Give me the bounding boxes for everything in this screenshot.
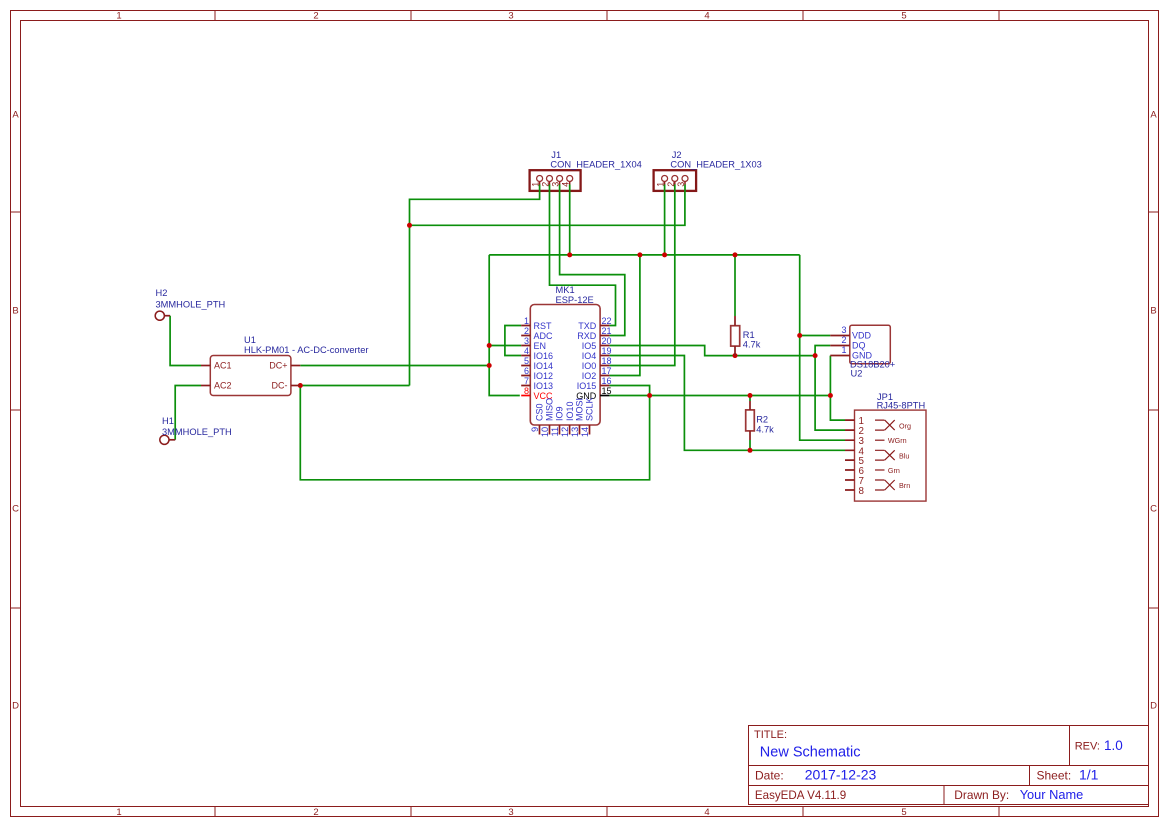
svg-text:2: 2 <box>841 335 846 345</box>
frame column numbers top <box>116 11 906 22</box>
svg-text:19: 19 <box>602 346 612 356</box>
svg-text:CS0: CS0 <box>535 403 545 421</box>
svg-text:DQ: DQ <box>852 341 866 351</box>
module MK1 ESP-12E <box>521 285 611 437</box>
JP1 pair symbol Brn <box>875 480 895 490</box>
wire U1 DC- to GND vertical <box>300 385 409 387</box>
U2 pin names <box>852 331 873 361</box>
wire J1 pin1 to GND vertical <box>410 185 540 386</box>
frame top ticks <box>215 11 999 21</box>
svg-text:B: B <box>12 306 18 317</box>
wire ESP GND horizontal <box>609 395 830 397</box>
junction R2 bottom on JP1 pin4 net <box>748 448 753 453</box>
title block row line 1 <box>749 765 1149 767</box>
svg-text:Org: Org <box>899 421 911 430</box>
resistor R1 <box>731 316 761 356</box>
title block outline <box>749 726 1149 805</box>
svg-text:A: A <box>12 110 19 121</box>
junction U1 DC- <box>298 383 303 388</box>
junction J1 pin4 on 3V3 rail <box>567 252 572 257</box>
svg-text:1: 1 <box>841 345 846 355</box>
J1 pin wires inside box <box>540 185 570 193</box>
MK1 left pin names <box>534 321 554 391</box>
svg-text:3: 3 <box>676 182 686 187</box>
wire R2 bottom to JP1 pin4 net <box>749 440 751 450</box>
JP1 pair symbol Blu <box>875 450 895 460</box>
svg-text:8: 8 <box>859 486 865 497</box>
MK1 bottom pin numbers rotated <box>530 427 590 437</box>
resistor R2 <box>746 401 774 440</box>
wire R1 top to 3V3 rail <box>734 255 736 316</box>
svg-text:R2: R2 <box>756 415 768 425</box>
mounting hole H1 <box>160 416 232 444</box>
svg-text:8: 8 <box>524 386 529 396</box>
svg-text:2: 2 <box>524 326 529 336</box>
junction R1 bottom on DQ net <box>733 353 738 358</box>
svg-text:2: 2 <box>313 807 318 818</box>
frame column numbers bottom <box>116 807 906 818</box>
svg-text:9: 9 <box>530 427 540 432</box>
wire 3V3 rail horizontal <box>489 254 800 256</box>
junction GND top at J1 pin1 <box>407 223 412 228</box>
J1 pin stubs <box>540 182 570 185</box>
svg-text:R1: R1 <box>743 330 755 340</box>
wire ESP IO2 to 3V3 rail <box>609 255 640 376</box>
svg-text:18: 18 <box>602 356 612 366</box>
title block row line 2 <box>749 785 1149 787</box>
svg-text:H2: H2 <box>156 288 168 298</box>
svg-text:DC-: DC- <box>272 381 288 391</box>
svg-text:22: 22 <box>602 316 612 326</box>
svg-text:C: C <box>12 504 19 515</box>
junction IO15 on GND wire <box>647 393 652 398</box>
wire J1 pin3 to ESP RXD <box>560 185 625 336</box>
wire H1 to U1 AC2 <box>175 386 201 440</box>
svg-text:C: C <box>1150 504 1157 515</box>
svg-text:REV:: REV: <box>1075 741 1100 753</box>
JP1 pin numbers <box>859 416 865 497</box>
svg-text:MK1: MK1 <box>556 285 575 295</box>
title block DrawnBy divider <box>943 786 945 805</box>
converter U1 HLK-PM01 <box>201 335 369 396</box>
MK1 right pin names <box>577 321 597 391</box>
header J1 CON_HEADER_1X04 <box>530 150 642 192</box>
svg-text:U1: U1 <box>244 335 256 345</box>
header J2 CON_HEADER_1X03 <box>654 150 762 192</box>
svg-text:IO5: IO5 <box>582 341 597 351</box>
svg-text:3MMHOLE_PTH: 3MMHOLE_PTH <box>156 300 226 310</box>
sensor U2 DS18B20 <box>830 325 895 379</box>
junction R1 top on 3V3 rail <box>733 252 738 257</box>
svg-text:RST: RST <box>534 321 553 331</box>
U1 pin names <box>214 361 288 391</box>
title block REV divider <box>1069 726 1071 766</box>
svg-text:Grn: Grn <box>888 466 900 475</box>
svg-text:3: 3 <box>524 336 529 346</box>
svg-text:IO14: IO14 <box>534 361 554 371</box>
svg-text:5: 5 <box>524 356 529 366</box>
svg-text:1/1: 1/1 <box>1079 767 1099 783</box>
svg-text:EN: EN <box>534 341 547 351</box>
U1 pin DC- stub <box>291 385 300 387</box>
svg-text:D: D <box>1150 701 1157 712</box>
svg-text:11: 11 <box>550 427 560 437</box>
svg-text:DC+: DC+ <box>269 361 287 371</box>
svg-text:1: 1 <box>116 807 121 818</box>
svg-text:1.0: 1.0 <box>1104 738 1123 753</box>
wire GND return path <box>300 386 649 480</box>
JP1 pin stubs 1-8 <box>845 420 855 490</box>
J1 pin numbers rotated <box>531 182 571 187</box>
U1 pin AC2 stub <box>201 385 210 387</box>
svg-text:2: 2 <box>541 182 551 187</box>
wire J1 pin2 to ESP TXD <box>550 185 616 326</box>
svg-text:A: A <box>1150 110 1157 121</box>
wire ESP RST to IO16 bracket <box>505 326 521 356</box>
wire GND horizontal to J2 pin3 <box>410 185 685 226</box>
connector JP1 RJ45-8PTH <box>845 392 926 501</box>
svg-text:14: 14 <box>580 427 590 437</box>
svg-text:H1: H1 <box>162 416 174 426</box>
R2 top stub <box>749 401 751 410</box>
svg-text:Blu: Blu <box>899 451 909 460</box>
JP1 single line Grn <box>875 469 885 471</box>
junction DC+ on 3V3 leg <box>487 363 492 368</box>
svg-text:TXD: TXD <box>578 321 597 331</box>
frame bottom ticks <box>215 807 999 817</box>
svg-text:15: 15 <box>602 386 612 396</box>
R2 bottom stub <box>749 431 751 440</box>
svg-text:Sheet:: Sheet: <box>1037 769 1072 783</box>
U1 pin AC1 stub <box>201 365 210 367</box>
svg-text:1: 1 <box>116 11 121 22</box>
title block Sheet divider <box>1029 766 1031 786</box>
svg-text:SCLK: SCLK <box>585 397 595 421</box>
frame row letters right <box>1150 110 1157 712</box>
svg-text:CON_HEADER_1X04: CON_HEADER_1X04 <box>550 160 641 170</box>
MK1 right pin numbers <box>602 316 612 386</box>
wire 3V3 left leg to ESP VCC <box>489 255 520 396</box>
U2 pin numbers <box>841 325 846 355</box>
mounting hole H2 <box>155 288 225 320</box>
svg-text:New Schematic: New Schematic <box>760 745 861 761</box>
wire ESP IO4 to JP1 pin4 <box>609 356 845 451</box>
junction J2 pin1 on 3V3 rail <box>662 252 667 257</box>
svg-text:6: 6 <box>524 366 529 376</box>
J2 pin numbers rotated <box>656 182 686 187</box>
svg-text:AC2: AC2 <box>214 381 232 391</box>
svg-text:4: 4 <box>704 11 709 22</box>
svg-text:3MMHOLE_PTH: 3MMHOLE_PTH <box>162 427 232 437</box>
svg-text:VDD: VDD <box>852 331 872 341</box>
wire U1 DC+ to 3V3 leg <box>300 365 489 367</box>
svg-text:IO12: IO12 <box>534 371 554 381</box>
svg-text:17: 17 <box>602 366 612 376</box>
svg-text:1: 1 <box>531 182 541 187</box>
R1 top stub <box>734 316 736 326</box>
J2 pin wires inside box <box>665 185 685 193</box>
svg-text:Your Name: Your Name <box>1020 787 1084 802</box>
wire 3V3 right leg to JP1 pin3 <box>800 255 845 440</box>
svg-text:EasyEDA V4.11.9: EasyEDA V4.11.9 <box>755 789 846 802</box>
frame right ticks <box>1149 212 1159 608</box>
MK1 left pin numbers <box>524 316 529 386</box>
svg-text:20: 20 <box>602 336 612 346</box>
svg-text:Drawn By:: Drawn By: <box>954 788 1009 802</box>
wire U2 GND to JP1 pin1 <box>830 356 845 421</box>
svg-text:HLK-PM01 - AC-DC-converter: HLK-PM01 - AC-DC-converter <box>244 345 369 355</box>
svg-text:ADC: ADC <box>534 331 554 341</box>
svg-text:IO16: IO16 <box>534 351 554 361</box>
svg-text:IO0: IO0 <box>582 361 597 371</box>
svg-text:ESP-12E: ESP-12E <box>556 295 594 305</box>
svg-text:IO10: IO10 <box>565 401 575 421</box>
svg-text:3: 3 <box>551 182 561 187</box>
wire J2 pin2 to ESP IO0 <box>609 185 674 366</box>
J1 pin circles <box>537 176 573 182</box>
JP1 single line WGrn <box>875 439 885 441</box>
svg-text:Date:: Date: <box>755 769 784 783</box>
wire VDD branch to U2 pin3 <box>800 335 831 337</box>
svg-text:3: 3 <box>508 807 513 818</box>
svg-text:Brn: Brn <box>899 481 910 490</box>
MK1 bottom pin names rotated <box>535 397 595 421</box>
wire J2 pin1 to 3V3 rail <box>664 185 666 255</box>
frame left ticks <box>11 212 21 608</box>
svg-text:J2: J2 <box>672 150 682 160</box>
svg-text:J1: J1 <box>551 150 561 160</box>
svg-text:21: 21 <box>602 326 612 336</box>
J2 pin stubs <box>665 182 685 185</box>
svg-text:2: 2 <box>313 11 318 22</box>
wire U2 DQ to JP1 pin2 <box>815 346 845 431</box>
svg-text:2: 2 <box>666 182 676 187</box>
svg-text:AC1: AC1 <box>214 361 232 371</box>
svg-text:CON_HEADER_1X03: CON_HEADER_1X03 <box>670 160 761 170</box>
svg-text:D: D <box>12 701 19 712</box>
frame row letters left <box>12 110 19 712</box>
svg-text:3: 3 <box>841 325 846 335</box>
MK1 bottom pin stubs 9-14 <box>540 425 590 435</box>
svg-text:4.7k: 4.7k <box>743 340 761 350</box>
svg-text:IO4: IO4 <box>582 351 597 361</box>
J2 pin circles <box>662 176 688 182</box>
svg-text:MOSI: MOSI <box>575 398 585 421</box>
wire ESP IO15 to GND <box>609 386 649 396</box>
wire ESP IO5 to DQ net <box>609 346 815 356</box>
junction DQ corner <box>813 353 818 358</box>
junction U2 GND on GND wire <box>828 393 833 398</box>
MK1 pin 8 VCC stub (red) <box>521 395 530 397</box>
svg-text:MISO: MISO <box>545 398 555 421</box>
junction IO2 on 3V3 rail <box>637 252 642 257</box>
svg-text:16: 16 <box>602 376 612 386</box>
svg-text:5: 5 <box>901 807 906 818</box>
R1 bottom stub <box>734 346 736 356</box>
svg-text:3: 3 <box>508 11 513 22</box>
svg-text:4.7k: 4.7k <box>756 425 774 435</box>
svg-text:1: 1 <box>524 316 529 326</box>
svg-text:13: 13 <box>570 427 580 437</box>
svg-text:2017-12-23: 2017-12-23 <box>805 767 877 783</box>
svg-text:RXD: RXD <box>577 331 597 341</box>
svg-text:4: 4 <box>704 807 709 818</box>
wire R2 top to GND <box>749 396 751 402</box>
MK1 pin 15 GND stub (black) <box>600 395 609 397</box>
svg-text:U2: U2 <box>851 369 863 379</box>
wire H2 to U1 AC1 <box>170 316 201 366</box>
svg-text:B: B <box>1150 306 1156 317</box>
wire J1 pin4 to 3V3 rail <box>569 185 571 255</box>
MK1 left pin stubs 1-8 <box>521 326 530 386</box>
junction VDD branch <box>797 333 802 338</box>
JP1 pair symbol Org <box>875 420 895 430</box>
svg-text:WGrn: WGrn <box>888 436 907 445</box>
svg-text:4: 4 <box>561 182 571 187</box>
svg-text:IO13: IO13 <box>534 381 554 391</box>
wire EN branch <box>489 345 521 347</box>
junction R2 top on GND wire <box>748 393 753 398</box>
svg-text:10: 10 <box>540 427 550 437</box>
svg-text:IO15: IO15 <box>577 381 597 391</box>
svg-text:5: 5 <box>901 11 906 22</box>
MK1 right pin stubs 22-15 <box>600 326 609 386</box>
svg-text:IO2: IO2 <box>582 371 597 381</box>
svg-text:RJ45-8PTH: RJ45-8PTH <box>877 400 926 410</box>
svg-text:12: 12 <box>560 427 570 437</box>
svg-text:TITLE:: TITLE: <box>754 729 787 741</box>
U2 pin stubs 3,2,1 <box>830 336 850 356</box>
U1 pin DC+ stub <box>291 365 300 367</box>
svg-text:7: 7 <box>524 376 529 386</box>
svg-text:1: 1 <box>656 182 666 187</box>
svg-text:IO9: IO9 <box>555 406 565 421</box>
svg-text:4: 4 <box>524 346 529 356</box>
junction EN on 3V3 leg <box>487 343 492 348</box>
